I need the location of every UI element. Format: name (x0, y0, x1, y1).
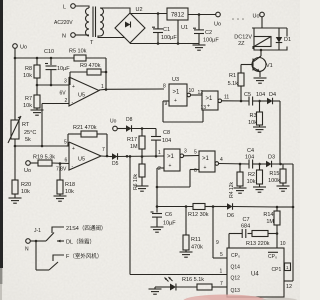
svg-text:+: + (169, 163, 172, 169)
resistor R1 5.1k (240, 65, 242, 74)
svg-text:R18: R18 (65, 182, 75, 188)
C6 ground (151, 226, 164, 228)
resistor R19 5.3k (30, 162, 38, 164)
svg-text:11: 11 (224, 95, 229, 101)
wire U5a pin2 to RT node (42, 103, 69, 105)
contact 2154 four-way valve (52, 227, 64, 233)
resistor R12 30k (193, 204, 205, 210)
diode D3 (260, 163, 267, 165)
R11 ground (180, 251, 193, 253)
svg-text:21S4（四通阀）: 21S4（四通阀） (66, 224, 106, 232)
node row Uo wire (15, 57, 74, 59)
svg-text:R2: R2 (248, 172, 255, 178)
R3 ground (253, 126, 266, 128)
svg-text:D4: D4 (269, 92, 276, 98)
U4 pin11 tab (285, 263, 291, 271)
wire L to transformer primary (75, 6, 89, 8)
svg-text:R13 220k: R13 220k (246, 241, 270, 247)
svg-text:5: 5 (220, 252, 223, 258)
transformer T secondary winding (100, 8, 104, 36)
resistor R3 10k (259, 101, 261, 112)
diode D6 (213, 206, 227, 208)
wire right rail to R14 (277, 206, 293, 208)
svg-text:U5: U5 (78, 93, 85, 99)
svg-text:RT: RT (22, 122, 30, 128)
wire R5 to U5a output (86, 57, 106, 59)
contact DL defrost (57, 240, 64, 242)
wire U6b output row (219, 163, 249, 166)
power ground rail wire (130, 43, 199, 45)
svg-text:2: 2 (158, 166, 161, 172)
IC U4 (227, 248, 284, 297)
regulator U1 7812 (167, 8, 188, 20)
svg-text:10k: 10k (23, 103, 32, 109)
svg-text:1: 1 (220, 269, 223, 275)
capacitor C8 104 (155, 129, 157, 137)
LED ground (149, 288, 162, 290)
wire N to transformer primary (75, 34, 89, 36)
wire C6 node to R12 (157, 206, 193, 208)
wire secondary bottom to bridge (98, 36, 125, 38)
svg-text:D3: D3 (268, 155, 275, 161)
svg-text:Uo: Uo (110, 119, 117, 125)
svg-text:4: 4 (220, 157, 223, 163)
svg-text:3: 3 (184, 149, 187, 155)
terminal L (71, 4, 76, 9)
svg-text:R1: R1 (229, 73, 236, 79)
svg-text:>1: >1 (206, 96, 214, 102)
pin3 input row wire (37, 84, 69, 86)
wire U6a out to U6b in (184, 155, 199, 157)
svg-text:R7: R7 (25, 96, 32, 102)
svg-text:R17: R17 (127, 137, 137, 143)
svg-text:C2: C2 (205, 30, 212, 36)
resistor R5 10k (74, 55, 86, 61)
svg-text:5: 5 (194, 150, 197, 156)
svg-text:9: 9 (216, 240, 219, 246)
svg-text:R16 5.1k: R16 5.1k (182, 277, 204, 283)
svg-text:R3: R3 (249, 113, 256, 119)
svg-text:470k: 470k (191, 245, 203, 251)
R18 ground (54, 195, 67, 197)
svg-text:C4: C4 (247, 148, 254, 154)
svg-text:C8: C8 (163, 130, 170, 136)
svg-text:C7: C7 (243, 217, 250, 223)
svg-text:Uo: Uo (214, 22, 221, 28)
capacitor C2 100uF (198, 15, 200, 31)
resistor R14 1M (276, 207, 278, 211)
resistor R9 470k (87, 69, 101, 75)
svg-text:J-1: J-1 (34, 228, 41, 234)
svg-text:CP₀: CP₀ (268, 254, 277, 260)
right rail down to U4 pin12 (292, 164, 294, 281)
svg-text:10k: 10k (248, 120, 257, 126)
svg-text:13: 13 (201, 105, 207, 111)
svg-text:3: 3 (64, 79, 67, 85)
svg-text:DC12V: DC12V (234, 35, 252, 41)
svg-text:D5: D5 (112, 161, 119, 167)
svg-text:R15: R15 (269, 171, 279, 177)
resistor R15 100k (282, 164, 284, 169)
svg-text:D8: D8 (126, 117, 133, 123)
op-amp U5 first half (69, 77, 99, 106)
wire R13 node to U4 pin10 (276, 234, 278, 249)
svg-text:6V: 6V (60, 91, 67, 97)
RT node row wire (15, 145, 66, 147)
svg-text:5: 5 (64, 140, 67, 146)
svg-text:R20: R20 (21, 182, 31, 188)
R4 ground (234, 187, 247, 189)
svg-text:104: 104 (256, 92, 265, 98)
svg-text:7.8V: 7.8V (56, 167, 67, 173)
svg-text:R9 470k: R9 470k (80, 63, 101, 69)
wire relay bottom to V1 collector (252, 46, 254, 49)
svg-text:Q14: Q14 (231, 265, 241, 271)
terminal Uo left rail (13, 44, 18, 49)
wire D4 to right rail (273, 100, 281, 102)
svg-text:F（室外风机）: F（室外风机） (66, 252, 102, 260)
U4 pin12 wire (284, 280, 293, 282)
svg-text:+: + (174, 98, 177, 104)
left rail wire lower (14, 139, 16, 180)
svg-text:CP₀: CP₀ (231, 253, 240, 259)
terminal N (71, 33, 76, 38)
svg-text:>1: >1 (167, 154, 175, 160)
terminal N contact common (26, 239, 31, 244)
transistor V1 (252, 58, 266, 72)
svg-text:R14: R14 (263, 212, 273, 218)
svg-text:R11: R11 (191, 237, 201, 243)
resistor R4 12k (239, 164, 241, 172)
svg-text:C10: C10 (44, 49, 54, 55)
svg-text:U5: U5 (78, 157, 85, 163)
wire D8 to C8 (132, 128, 157, 130)
svg-text:V1: V1 (266, 63, 273, 69)
svg-text:U1: U1 (181, 25, 188, 31)
contact F outdoor fan (53, 255, 64, 261)
diode D1 relay freewheel (278, 28, 280, 37)
svg-text:25°C: 25°C (24, 130, 36, 136)
svg-text:104: 104 (245, 155, 254, 161)
svg-text:10k: 10k (65, 189, 74, 195)
contact blade 2 (49, 262, 58, 270)
transistor V1 emitter ground (254, 77, 267, 79)
gate U6a (164, 149, 180, 171)
resistor R18 10k (59, 164, 61, 181)
R7 ground (31, 109, 44, 111)
svg-text:R8: R8 (25, 66, 32, 72)
wire U3a out to U3b in (191, 94, 202, 96)
transformer T core (92, 7, 94, 38)
wire D6 to R14 node (233, 206, 278, 209)
thermistor RT 25C 5k (11, 120, 19, 139)
wire C7 to U4 pin9 (229, 233, 242, 235)
resistor R6 vertical (141, 157, 143, 165)
svg-text:R21 470k: R21 470k (73, 125, 97, 131)
capacitor C5 104 (248, 97, 250, 106)
diode D5 (110, 156, 112, 158)
svg-text:104: 104 (162, 138, 171, 144)
svg-text:Uo: Uo (24, 168, 31, 174)
svg-text:5k: 5k (25, 137, 31, 143)
svg-text:10k: 10k (247, 179, 256, 185)
resistor R16 5.1k (176, 286, 197, 288)
svg-text:10µF: 10µF (163, 221, 176, 227)
R2 ground (253, 186, 266, 188)
svg-text:C6: C6 (165, 212, 172, 218)
terminal Uo power output (216, 12, 221, 17)
resistor R11 470k (185, 207, 187, 236)
svg-text:1M: 1M (266, 219, 274, 225)
svg-text:CP1: CP1 (272, 267, 282, 273)
svg-text:1: 1 (158, 150, 161, 156)
wire secondary top to bridge (100, 8, 130, 14)
svg-text:Uo: Uo (252, 14, 259, 20)
svg-text:Q13: Q13 (231, 288, 241, 294)
svg-text:C1: C1 (163, 27, 170, 33)
terminal Uo relay supply (260, 12, 265, 17)
wire Uo to relay (261, 17, 263, 28)
long rail from D5 node to U4 pin1 (129, 156, 131, 274)
resistor R7 10k (36, 85, 38, 95)
svg-text:AC220V: AC220V (54, 20, 73, 26)
resistor R8 10k (36, 58, 38, 65)
J-1 contact wire (30, 240, 46, 242)
svg-text:C5: C5 (244, 92, 251, 98)
svg-text:+: + (72, 146, 75, 152)
J-1 lower wire (35, 241, 37, 270)
svg-text:Q12: Q12 (231, 276, 241, 282)
wire 7812 output to Uo (188, 14, 216, 16)
svg-text:12: 12 (286, 284, 292, 290)
svg-text:R4 12k: R4 12k (229, 182, 235, 198)
svg-text:+: + (72, 84, 75, 90)
wire 7812 ground pin (177, 20, 179, 44)
svg-text:100µF: 100µF (161, 35, 177, 41)
wire ground to LED (155, 286, 170, 288)
svg-text:5.1k: 5.1k (228, 81, 239, 87)
relay K coil DC12V 2Z (252, 27, 287, 29)
svg-text:10µF: 10µF (57, 66, 70, 72)
U6 feedback wire (157, 167, 164, 169)
svg-text:9: 9 (165, 101, 168, 107)
capacitor C6 10uF (156, 205, 159, 208)
svg-text:N: N (25, 247, 29, 253)
gate U3b (202, 91, 218, 110)
bridge rectifier U2 (115, 13, 145, 43)
contact blade 1 (46, 233, 54, 242)
U3 feedback wire pin9 (163, 100, 169, 102)
op-amp U5 second half (69, 142, 101, 170)
wire D3 node (272, 163, 294, 165)
capacitor C4 104 (248, 160, 250, 169)
svg-text:D1: D1 (284, 37, 291, 43)
R15 ground (277, 185, 290, 187)
wire U5b output row (101, 155, 110, 158)
svg-text:7812: 7812 (171, 12, 185, 18)
wire U5a output to gate U3 pin8 (99, 89, 164, 90)
resistor R17 1M (141, 129, 143, 137)
svg-text:DL（除霜）: DL（除霜） (66, 238, 95, 246)
svg-text:684: 684 (241, 224, 250, 230)
left rail wire (14, 48, 16, 120)
svg-text:>1: >1 (202, 156, 210, 162)
svg-text:N: N (62, 34, 66, 40)
svg-text:10k: 10k (23, 73, 32, 79)
terminal Uo reference (26, 161, 31, 166)
R6 ground (136, 185, 149, 187)
scan edge strip (0, 0, 3, 268)
svg-text:7: 7 (220, 281, 223, 287)
svg-text:>1: >1 (173, 90, 181, 96)
svg-text:+: + (207, 104, 210, 110)
resistor R13 220k (252, 231, 268, 237)
svg-text:10: 10 (280, 241, 286, 247)
diode D4 (260, 100, 268, 102)
rail R12 node to U4 pin5 (212, 207, 214, 259)
resistor R20 10k (12, 180, 18, 194)
svg-text:+: + (204, 165, 207, 171)
svg-text:Uo: Uo (20, 45, 27, 51)
svg-text:8: 8 (163, 84, 166, 90)
diode D8 (117, 128, 126, 130)
svg-text:R5 10k: R5 10k (69, 49, 87, 55)
svg-text:U4: U4 (251, 272, 259, 278)
terminal Uo D8 input (113, 126, 118, 131)
wire U3b output to C5 row (222, 100, 249, 102)
svg-text:2: 2 (65, 98, 68, 104)
scan pink blob bottom (183, 295, 267, 300)
svg-text:U2: U2 (136, 7, 143, 13)
transformer T primary winding (86, 8, 90, 36)
wire bridge to 7812 input (130, 13, 167, 15)
svg-text:10k: 10k (21, 189, 30, 195)
svg-text:6: 6 (65, 158, 68, 164)
svg-text:100k: 100k (268, 178, 280, 184)
resistor R2 10k (259, 164, 261, 170)
power supply ground (193, 44, 206, 46)
svg-text:2Z: 2Z (238, 41, 245, 47)
svg-text:1M: 1M (130, 144, 138, 150)
gate U6b (199, 151, 215, 172)
svg-text:D6: D6 (227, 213, 234, 219)
svg-text:U3: U3 (172, 77, 179, 83)
LED indicator (170, 284, 176, 291)
capacitor C7 684 (241, 229, 243, 238)
svg-text:10: 10 (189, 88, 195, 94)
scan dots between terminals (232, 18, 234, 20)
capacitor C1 100uF (157, 14, 159, 30)
svg-text:R6 10k: R6 10k (133, 174, 139, 190)
svg-text:7: 7 (102, 147, 105, 153)
svg-text:L: L (63, 5, 66, 11)
wire D5 to gate U6 pin1 (116, 155, 165, 158)
svg-text:100µF: 100µF (203, 38, 219, 44)
svg-text:R12 30k: R12 30k (188, 212, 209, 218)
R20 ground (9, 197, 22, 199)
svg-text:6: 6 (194, 168, 197, 174)
